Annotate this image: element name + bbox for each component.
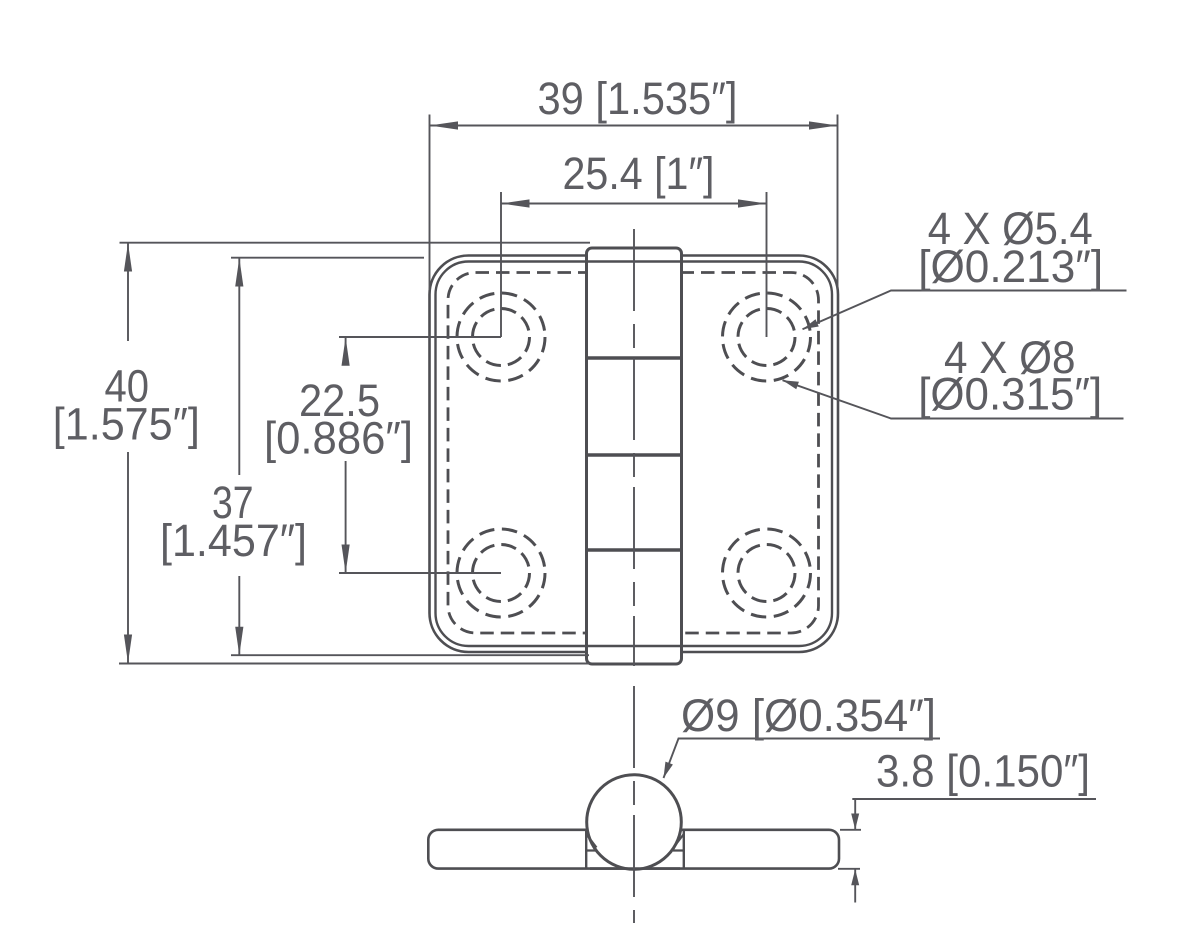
svg-text:[Ø0.315″]: [Ø0.315″] <box>918 369 1102 420</box>
svg-text:[0.886″]: [0.886″] <box>264 413 413 464</box>
dimension 39 [1.535"] dimension line with arrows <box>430 125 838 127</box>
dimension 22.5 bottom extension line to hole center <box>339 572 501 574</box>
svg-text:[Ø0.213″]: [Ø0.213″] <box>918 241 1103 292</box>
dimension 37 dimension line upper segment with arrow <box>238 258 240 475</box>
dimension 22.5 dimension line upper segment with arrow <box>345 337 347 361</box>
dimension 39 left extension line <box>429 115 431 291</box>
dimension 40 label line 1 <box>105 360 150 411</box>
hinge leaf inner solid outline <box>436 262 833 647</box>
dimension 40 label line 2 <box>53 399 200 450</box>
svg-text:[1.575″]: [1.575″] <box>53 399 200 450</box>
svg-text:3.8 [0.150″]: 3.8 [0.150″] <box>876 746 1090 797</box>
hole bottom-left outer dashed circle <box>457 529 545 617</box>
barrel knuckle division line 3 <box>587 548 682 551</box>
dimension 3.8 upper dimension line with down arrow <box>854 799 856 830</box>
dimension 22.5 label line 1 <box>299 375 380 426</box>
side view left fillet detail <box>586 834 597 851</box>
dimension 3.8 bottom extension line <box>838 868 860 870</box>
label 4 X O5.4 line 2 <box>918 241 1103 292</box>
leader line 4 X O5.4 with arrow <box>803 291 1127 330</box>
label 4 X O5.4 line 1 <box>928 203 1093 254</box>
svg-text:Ø9 [Ø0.354″]: Ø9 [Ø0.354″] <box>681 690 936 741</box>
dimension 25.4 left extension line to hole center <box>500 192 502 337</box>
hole top-right outer dashed circle <box>723 293 811 381</box>
hole top-left outer dashed circle <box>457 293 545 381</box>
side view barrel left attachment line <box>585 830 587 869</box>
dimension 37 dimension line lower segment with arrow <box>238 576 240 655</box>
hinge barrel (knuckle strip) <box>587 248 682 664</box>
dimension 40 dimension line lower segment with arrow <box>127 452 129 663</box>
dimension 22.5 dimension line lower segment with arrow <box>345 461 347 573</box>
dimension 22.5 label line 2 <box>264 413 413 464</box>
dimension 39 right extension line <box>837 115 839 291</box>
barrel knuckle division line 2 <box>587 453 682 456</box>
dimension 25.4 [1"] dimension line with arrows <box>501 203 767 205</box>
dimension 40 top extension line <box>120 242 591 244</box>
dimension 22.5 top extension line to hole center <box>339 336 501 338</box>
hinge leaf inner dashed outline <box>448 273 819 634</box>
label O9 <box>681 690 936 741</box>
side view right fillet detail <box>673 834 684 851</box>
dimension 39 label <box>538 73 738 124</box>
dimension 3.8 lower dimension line with up arrow <box>854 869 856 902</box>
svg-text:39 [1.535″]: 39 [1.535″] <box>538 73 738 124</box>
hole top-right inner dashed circle <box>738 309 795 366</box>
dimension 3.8 leader shelf line <box>852 798 1096 800</box>
svg-text:[1.457″]: [1.457″] <box>160 515 307 566</box>
hole bottom-right outer dashed circle <box>723 529 811 617</box>
dimension 37 bottom extension line <box>231 654 589 656</box>
label 4 X O8 line 2 <box>918 369 1102 420</box>
label 4 X O8 line 1 <box>944 332 1076 383</box>
side view plate bottom edge through barrel <box>590 867 680 870</box>
side view barrel circle <box>587 775 682 870</box>
dimension 37 label line 2 <box>160 515 307 566</box>
hole bottom-left inner dashed circle <box>473 545 530 602</box>
side view barrel right attachment line <box>683 830 685 869</box>
dimension 40 bottom extension line <box>119 663 590 665</box>
hole top-left inner dashed circle <box>473 309 530 366</box>
dimension 37 top extension line <box>231 257 424 259</box>
vertical center line top view <box>633 229 635 666</box>
hinge leaf outer outline <box>430 256 839 653</box>
leader line O9 with arrow <box>664 739 941 779</box>
dimension 25.4 label <box>563 148 715 199</box>
dimension 40 dimension line upper segment with arrow <box>127 243 129 341</box>
side view plate outline <box>428 830 839 869</box>
svg-text:25.4 [1″]: 25.4 [1″] <box>563 148 715 199</box>
hole bottom-right inner dashed circle <box>738 545 795 602</box>
vertical center line side view <box>633 686 635 923</box>
label 3.8 <box>876 746 1090 797</box>
dimension 37 label line 1 <box>212 477 254 528</box>
barrel knuckle division line 1 <box>587 356 682 359</box>
dimension 3.8 top extension line <box>840 829 861 831</box>
leader line 4 X O8 with arrow <box>783 380 1124 418</box>
dimension 25.4 right extension line to hole center <box>766 192 768 337</box>
